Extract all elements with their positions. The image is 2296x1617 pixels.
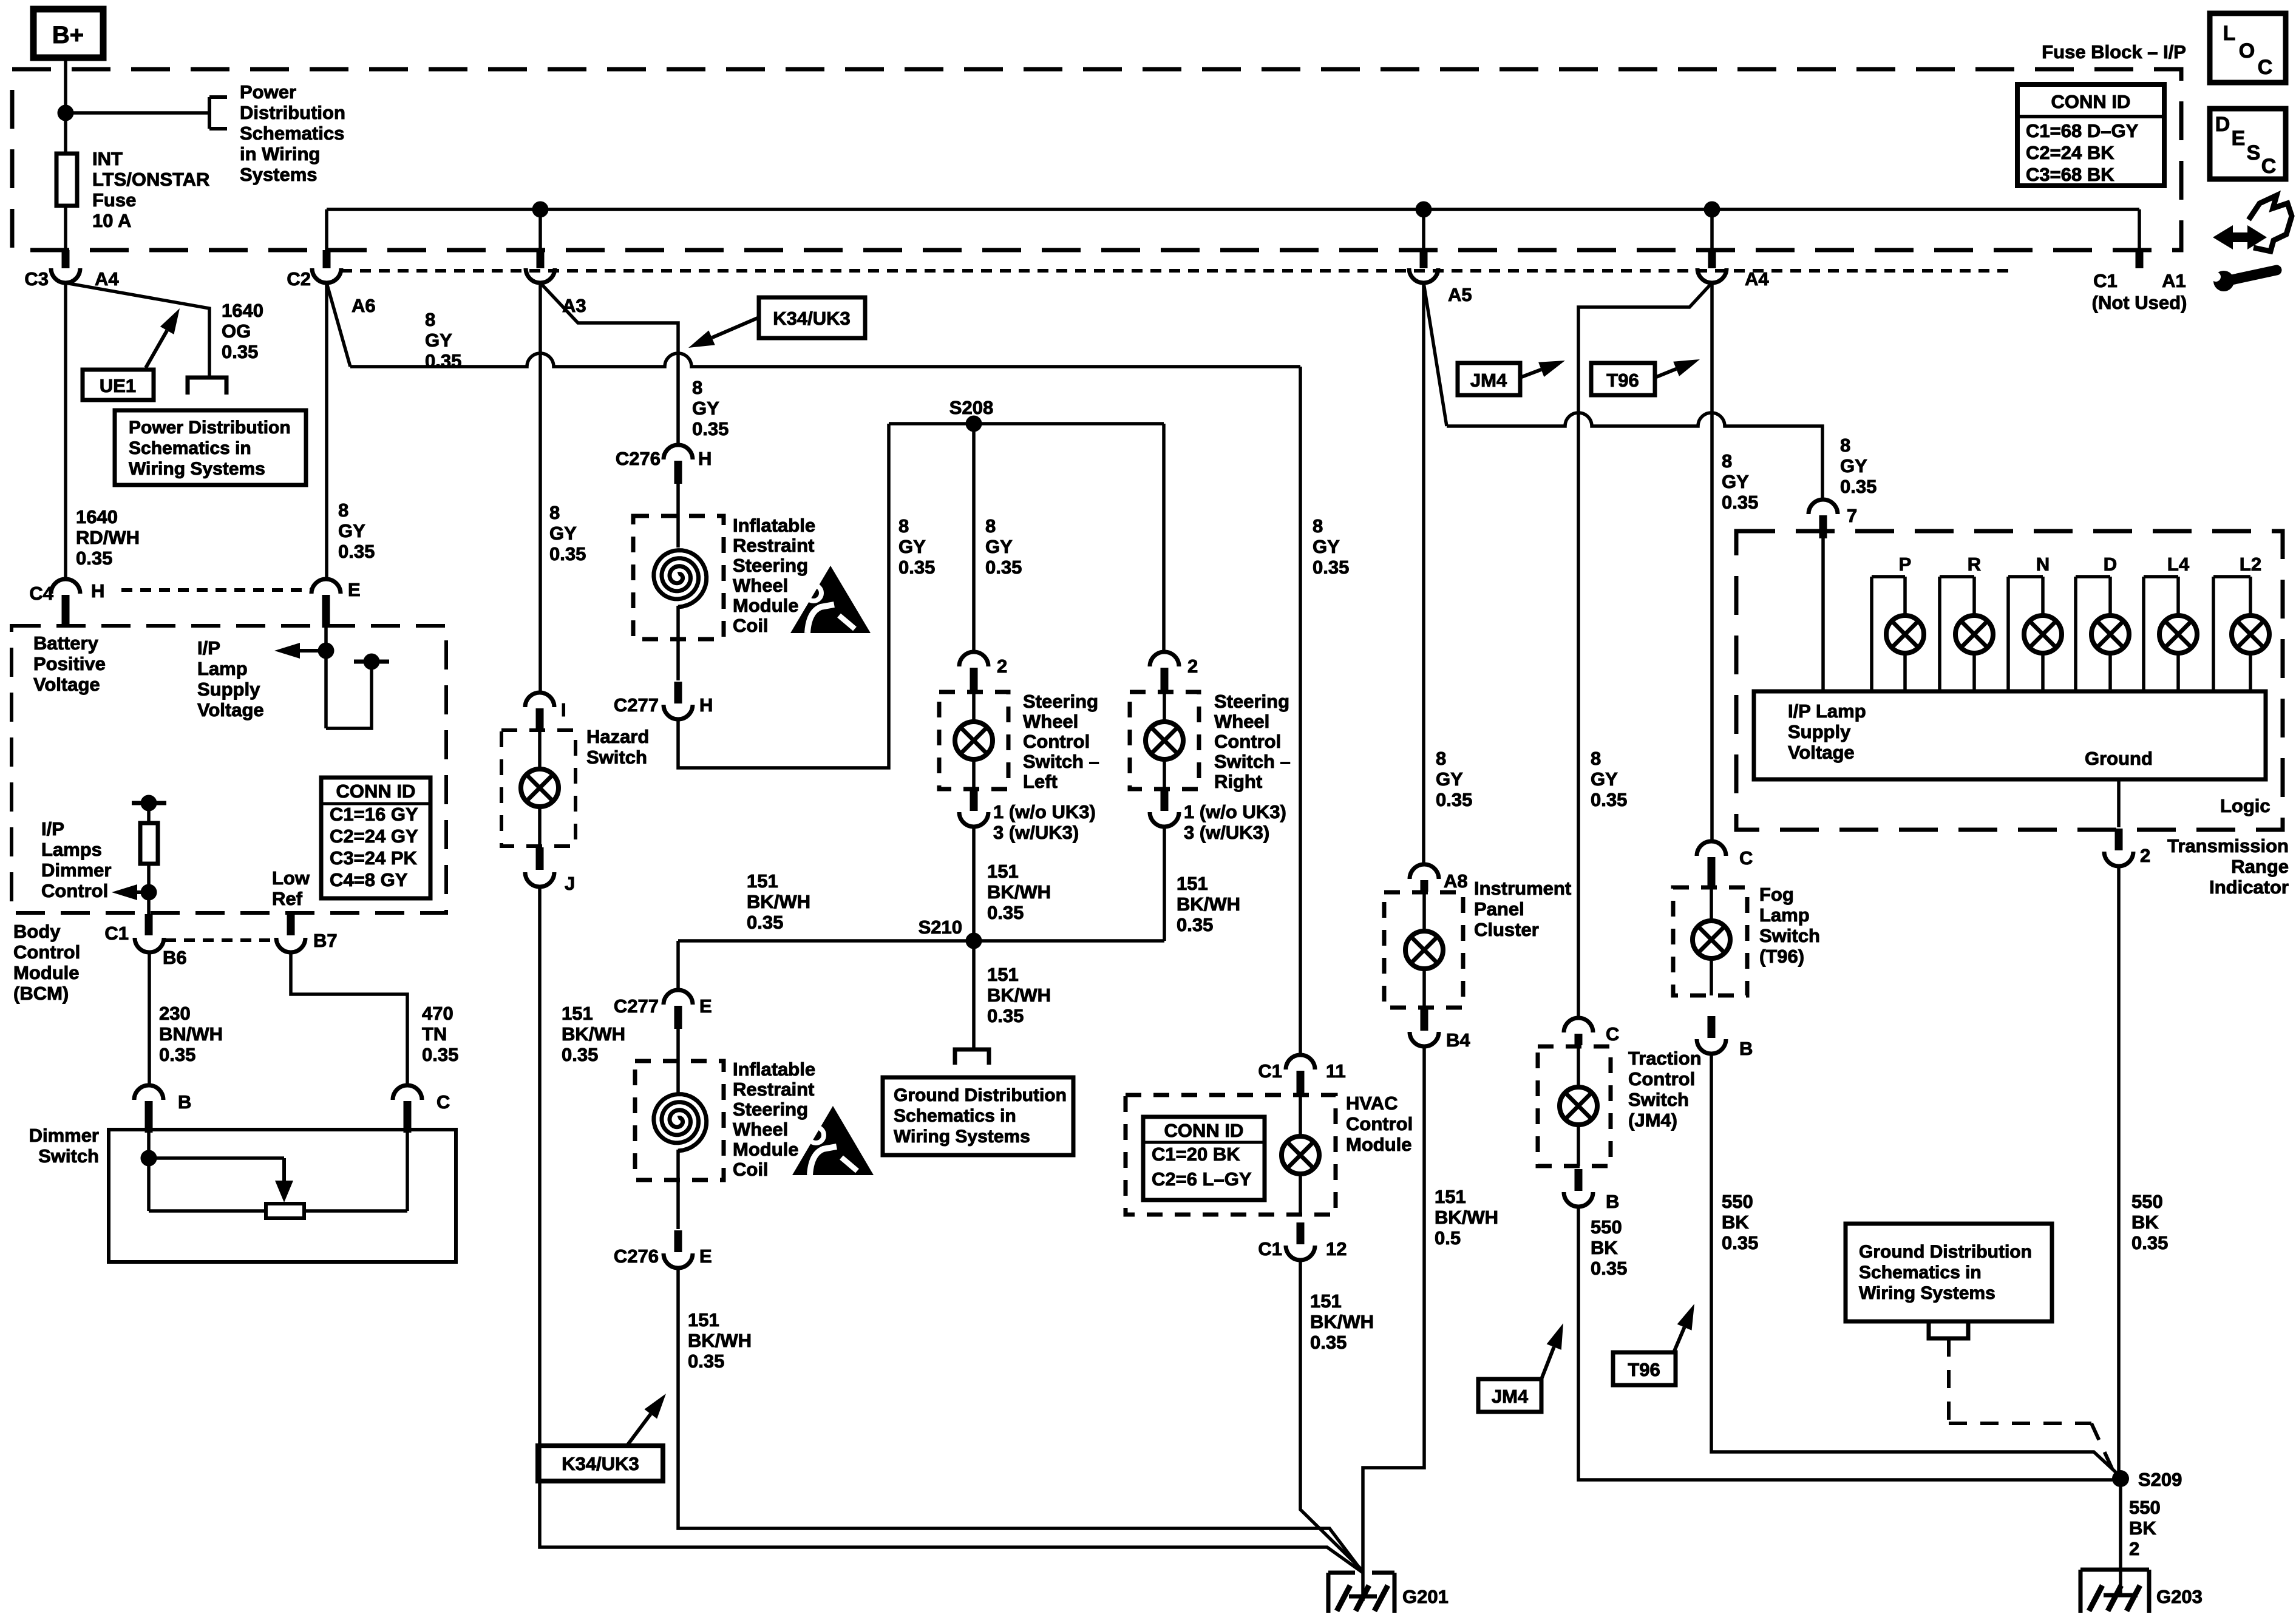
svg-text:Instrument: Instrument [1474, 878, 1571, 899]
svg-text:GY: GY [1591, 768, 1618, 790]
svg-text:Lamp: Lamp [197, 658, 248, 679]
svg-text:Control: Control [1214, 731, 1281, 752]
svg-text:GY: GY [425, 330, 452, 351]
svg-text:HVAC: HVAC [1346, 1093, 1398, 1114]
svg-text:L4: L4 [2167, 554, 2190, 575]
svg-text:7: 7 [1847, 505, 1857, 526]
svg-text:Traction: Traction [1628, 1048, 1702, 1069]
svg-text:Supply: Supply [197, 679, 260, 700]
svg-text:0.35: 0.35 [987, 902, 1024, 923]
svg-text:8: 8 [425, 309, 435, 330]
svg-text:Transmission: Transmission [2167, 835, 2289, 856]
svg-text:B4: B4 [1446, 1029, 1470, 1051]
svg-text:INT: INT [92, 148, 123, 169]
svg-text:P: P [1899, 554, 1912, 575]
svg-text:Cluster: Cluster [1474, 919, 1539, 940]
svg-text:0.35: 0.35 [422, 1044, 458, 1065]
svg-text:UE1: UE1 [100, 375, 136, 396]
svg-text:0.35: 0.35 [338, 541, 375, 562]
svg-text:151: 151 [747, 870, 778, 892]
svg-text:A6: A6 [352, 295, 376, 316]
svg-text:Coil: Coil [733, 1159, 769, 1180]
svg-text:B: B [1739, 1038, 1753, 1059]
svg-text:3 (w/UK3): 3 (w/UK3) [993, 822, 1079, 843]
svg-text:8: 8 [985, 515, 996, 537]
svg-text:I/P Lamp: I/P Lamp [1788, 700, 1866, 722]
svg-text:Restraint: Restraint [733, 1079, 814, 1100]
svg-text:151: 151 [1177, 873, 1208, 894]
svg-text:8: 8 [1722, 450, 1732, 472]
svg-text:BK/WH: BK/WH [1310, 1311, 1374, 1332]
svg-text:Control: Control [1346, 1113, 1413, 1134]
svg-text:CONN ID: CONN ID [336, 781, 416, 802]
svg-text:S210: S210 [919, 917, 962, 938]
svg-text:Restraint: Restraint [733, 535, 814, 556]
svg-text:A3: A3 [562, 295, 586, 316]
svg-text:E: E [699, 995, 712, 1017]
svg-text:0.35: 0.35 [76, 547, 112, 569]
svg-text:0.35: 0.35 [1177, 914, 1213, 935]
svg-text:Hazard: Hazard [586, 726, 649, 747]
svg-text:470: 470 [422, 1003, 453, 1024]
svg-text:(BCM): (BCM) [13, 983, 69, 1004]
svg-text:8: 8 [1591, 748, 1601, 769]
svg-text:N: N [2036, 554, 2050, 575]
svg-text:8: 8 [1313, 515, 1323, 537]
svg-text:K34/UK3: K34/UK3 [562, 1453, 639, 1474]
svg-text:H: H [698, 448, 712, 469]
svg-text:J: J [565, 873, 575, 894]
svg-text:Control: Control [1628, 1068, 1695, 1090]
svg-text:Range: Range [2231, 856, 2289, 877]
svg-text:T96: T96 [1628, 1359, 1660, 1380]
svg-text:O: O [2239, 39, 2255, 63]
svg-text:Fuse: Fuse [92, 189, 136, 211]
svg-text:2: 2 [2129, 1538, 2139, 1559]
svg-text:230: 230 [159, 1003, 191, 1024]
svg-text:G203: G203 [2156, 1586, 2203, 1607]
svg-text:0.35: 0.35 [1591, 789, 1627, 810]
svg-text:0.35: 0.35 [222, 341, 258, 362]
svg-text:JM4: JM4 [1470, 370, 1507, 391]
svg-text:0.35: 0.35 [985, 557, 1022, 578]
svg-text:151: 151 [562, 1003, 593, 1024]
svg-text:Coil: Coil [733, 615, 769, 636]
svg-text:Switch: Switch [1628, 1089, 1689, 1110]
svg-text:TN: TN [422, 1023, 447, 1045]
svg-text:BK/WH: BK/WH [1177, 893, 1240, 915]
svg-text:0.35: 0.35 [549, 543, 586, 564]
svg-text:Wheel: Wheel [1214, 711, 1269, 732]
svg-text:0.35: 0.35 [1722, 492, 1758, 513]
svg-text:0.35: 0.35 [159, 1044, 195, 1065]
svg-text:CONN ID: CONN ID [1164, 1120, 1244, 1141]
svg-text:C: C [1606, 1023, 1619, 1045]
svg-text:Dimmer: Dimmer [29, 1125, 99, 1146]
svg-text:10 A: 10 A [92, 210, 131, 231]
svg-text:151: 151 [987, 861, 1019, 882]
svg-text:B+: B+ [52, 22, 84, 49]
svg-text:0.35: 0.35 [987, 1005, 1024, 1026]
svg-text:Supply: Supply [1788, 721, 1851, 742]
svg-text:Voltage: Voltage [197, 699, 264, 720]
svg-text:A5: A5 [1448, 284, 1472, 305]
svg-text:Logic: Logic [2220, 795, 2271, 816]
svg-text:Positive: Positive [33, 653, 106, 674]
svg-text:Lamp: Lamp [1759, 904, 1810, 926]
svg-text:H: H [91, 580, 104, 602]
svg-text:JM4: JM4 [1492, 1386, 1529, 1407]
svg-text:E: E [2232, 127, 2246, 150]
svg-text:151: 151 [688, 1309, 719, 1331]
svg-text:Power Distribution: Power Distribution [129, 418, 291, 438]
svg-text:I/P: I/P [197, 637, 220, 659]
svg-text:0.35: 0.35 [425, 350, 461, 371]
svg-text:Fuse Block – I/P: Fuse Block – I/P [2042, 41, 2186, 63]
svg-text:Switch –: Switch – [1023, 751, 1099, 772]
svg-text:BK/WH: BK/WH [987, 985, 1051, 1006]
svg-text:BK/WH: BK/WH [987, 881, 1051, 903]
svg-text:BK/WH: BK/WH [747, 891, 810, 912]
svg-text:Wheel: Wheel [1023, 711, 1078, 732]
svg-text:Module: Module [733, 1139, 799, 1160]
svg-text:0.35: 0.35 [1591, 1258, 1627, 1279]
svg-text:Schematics in: Schematics in [894, 1106, 1016, 1126]
svg-text:0.35: 0.35 [1436, 789, 1472, 810]
svg-text:2: 2 [1187, 656, 1198, 677]
svg-text:0.35: 0.35 [2131, 1232, 2168, 1253]
svg-text:B6: B6 [163, 947, 187, 968]
svg-text:I: I [561, 699, 566, 720]
svg-text:GY: GY [338, 520, 365, 541]
svg-text:Schematics in: Schematics in [1859, 1263, 1982, 1283]
svg-text:Voltage: Voltage [33, 674, 100, 695]
svg-text:0.35: 0.35 [1310, 1332, 1347, 1353]
svg-text:OG: OG [222, 320, 251, 342]
svg-text:0.35: 0.35 [1313, 557, 1349, 578]
svg-text:RD/WH: RD/WH [76, 527, 140, 548]
svg-text:C1=20 BK: C1=20 BK [1152, 1144, 1240, 1165]
svg-text:8: 8 [898, 515, 909, 537]
svg-text:Wiring Systems: Wiring Systems [894, 1127, 1030, 1147]
svg-text:(JM4): (JM4) [1628, 1110, 1677, 1131]
svg-text:D: D [2104, 554, 2117, 575]
svg-text:0.35: 0.35 [562, 1044, 598, 1065]
svg-text:BK: BK [2129, 1517, 2156, 1539]
svg-text:I/P: I/P [41, 818, 64, 839]
svg-text:Systems: Systems [240, 164, 318, 185]
svg-text:A8: A8 [1444, 870, 1468, 892]
svg-text:Module: Module [733, 595, 799, 616]
svg-text:Steering: Steering [733, 555, 808, 576]
svg-text:S208: S208 [949, 397, 993, 418]
svg-text:C: C [436, 1091, 450, 1113]
svg-text:Left: Left [1023, 771, 1058, 792]
svg-text:Right: Right [1214, 771, 1262, 792]
svg-text:151: 151 [1310, 1290, 1342, 1312]
svg-text:GY: GY [692, 398, 719, 419]
svg-text:C2=6 L–GY: C2=6 L–GY [1152, 1168, 1252, 1190]
svg-text:Switch: Switch [1759, 925, 1820, 946]
svg-text:GY: GY [985, 536, 1013, 557]
svg-text:0.35: 0.35 [1722, 1232, 1758, 1253]
svg-text:C4: C4 [29, 583, 53, 604]
svg-text:C3: C3 [24, 268, 49, 290]
svg-text:Control: Control [13, 941, 80, 963]
svg-text:550: 550 [1591, 1216, 1622, 1238]
svg-text:0.35: 0.35 [688, 1351, 724, 1372]
svg-text:151: 151 [1435, 1186, 1466, 1207]
svg-text:GY: GY [898, 536, 926, 557]
svg-text:550: 550 [2129, 1497, 2161, 1518]
svg-text:BK: BK [1591, 1237, 1618, 1258]
svg-text:G201: G201 [1402, 1586, 1449, 1607]
svg-text:1 (w/o UK3): 1 (w/o UK3) [1184, 801, 1286, 822]
svg-text:L2: L2 [2240, 554, 2261, 575]
svg-text:CONN ID: CONN ID [2051, 91, 2131, 112]
svg-text:0.35: 0.35 [1840, 476, 1877, 497]
svg-text:BN/WH: BN/WH [159, 1023, 223, 1045]
svg-text:Schematics: Schematics [240, 123, 344, 144]
svg-text:R: R [1968, 554, 1981, 575]
svg-text:GY: GY [1313, 536, 1340, 557]
svg-text:1640: 1640 [222, 300, 263, 321]
svg-text:Module: Module [13, 962, 80, 983]
svg-text:C1: C1 [1258, 1238, 1282, 1259]
svg-text:K34/UK3: K34/UK3 [773, 308, 851, 329]
svg-text:C276: C276 [616, 448, 661, 469]
svg-text:Panel: Panel [1474, 898, 1524, 920]
svg-text:C277: C277 [614, 995, 659, 1017]
svg-text:Ground Distribution: Ground Distribution [1859, 1242, 2032, 1262]
svg-text:T96: T96 [1606, 370, 1639, 391]
svg-text:GY: GY [1722, 471, 1749, 492]
svg-text:Voltage: Voltage [1788, 742, 1855, 763]
svg-text:C: C [2261, 155, 2277, 178]
svg-text:Switch: Switch [38, 1145, 99, 1167]
svg-text:GY: GY [549, 523, 577, 544]
svg-text:Power: Power [240, 81, 296, 103]
svg-text:8: 8 [692, 377, 702, 398]
svg-text:Wiring Systems: Wiring Systems [1859, 1283, 1995, 1303]
svg-text:0.5: 0.5 [1435, 1227, 1461, 1249]
svg-text:12: 12 [1326, 1238, 1347, 1259]
svg-text:C3=24 PK: C3=24 PK [330, 847, 418, 869]
svg-text:Schematics in: Schematics in [129, 438, 251, 458]
svg-text:B: B [178, 1091, 191, 1113]
svg-text:0.35: 0.35 [747, 912, 783, 933]
svg-text:(Not Used): (Not Used) [2092, 292, 2187, 313]
svg-text:Inflatable: Inflatable [733, 515, 815, 536]
svg-text:Body: Body [13, 921, 61, 942]
svg-text:C2: C2 [287, 268, 311, 290]
svg-text:Indicator: Indicator [2209, 876, 2289, 898]
svg-text:Control: Control [1023, 731, 1090, 752]
svg-text:D: D [2215, 113, 2230, 136]
svg-text:B7: B7 [313, 930, 338, 951]
svg-text:BK/WH: BK/WH [1435, 1207, 1498, 1228]
svg-text:C1: C1 [2093, 270, 2118, 291]
svg-text:8: 8 [1436, 748, 1446, 769]
svg-text:C3=68 BK: C3=68 BK [2026, 164, 2114, 185]
svg-text:Battery: Battery [33, 632, 99, 654]
svg-text:2: 2 [2140, 845, 2150, 866]
svg-text:Wheel: Wheel [733, 575, 788, 596]
svg-text:2: 2 [997, 656, 1007, 677]
svg-text:E: E [348, 579, 361, 600]
svg-text:C276: C276 [614, 1246, 659, 1267]
svg-text:Ref: Ref [272, 888, 303, 909]
svg-text:C: C [1739, 847, 1753, 869]
svg-text:LTS/ONSTAR: LTS/ONSTAR [92, 169, 209, 190]
svg-text:8: 8 [549, 502, 560, 523]
svg-text:Module: Module [1346, 1134, 1412, 1155]
svg-text:GY: GY [1840, 455, 1867, 476]
svg-text:0.35: 0.35 [898, 557, 935, 578]
svg-text:1 (w/o UK3): 1 (w/o UK3) [993, 801, 1096, 822]
svg-text:E: E [699, 1246, 712, 1267]
svg-text:Wheel: Wheel [733, 1119, 788, 1140]
svg-text:BK/WH: BK/WH [688, 1330, 752, 1351]
svg-text:Fog: Fog [1759, 884, 1794, 905]
svg-text:Dimmer: Dimmer [41, 859, 111, 881]
svg-text:Switch: Switch [586, 747, 647, 768]
svg-text:C2=24 BK: C2=24 BK [2026, 142, 2114, 163]
svg-text:Control: Control [41, 880, 108, 901]
svg-text:11: 11 [1326, 1060, 1346, 1082]
svg-text:(T96): (T96) [1759, 946, 1804, 967]
svg-text:Low: Low [272, 867, 310, 889]
svg-text:A4: A4 [95, 268, 119, 290]
svg-text:Wiring Systems: Wiring Systems [129, 459, 265, 479]
svg-text:Ground: Ground [2085, 748, 2153, 769]
svg-text:8: 8 [1840, 435, 1850, 456]
svg-text:550: 550 [2131, 1191, 2163, 1212]
svg-text:C1: C1 [104, 923, 129, 944]
svg-text:S: S [2247, 141, 2261, 164]
svg-text:H: H [699, 694, 713, 716]
svg-text:BK/WH: BK/WH [562, 1023, 625, 1045]
svg-text:C1=16 GY: C1=16 GY [330, 804, 418, 825]
svg-text:151: 151 [987, 964, 1019, 985]
svg-text:C1=68 D–GY: C1=68 D–GY [2026, 120, 2139, 141]
svg-text:Inflatable: Inflatable [733, 1059, 815, 1080]
svg-text:GY: GY [1436, 768, 1463, 790]
svg-text:C277: C277 [614, 694, 659, 716]
svg-text:L: L [2223, 22, 2236, 45]
svg-text:S209: S209 [2138, 1469, 2182, 1490]
svg-text:Lamps: Lamps [41, 839, 102, 860]
svg-text:B: B [1606, 1191, 1619, 1212]
svg-text:3 (w/UK3): 3 (w/UK3) [1184, 822, 1269, 843]
svg-text:BK: BK [1722, 1212, 1749, 1233]
svg-text:550: 550 [1722, 1191, 1753, 1212]
svg-text:Distribution: Distribution [240, 102, 345, 123]
svg-text:Ground Distribution: Ground Distribution [894, 1085, 1067, 1105]
svg-text:BK: BK [2131, 1212, 2159, 1233]
svg-text:8: 8 [338, 500, 348, 521]
svg-text:Steering: Steering [733, 1099, 808, 1120]
svg-text:Switch –: Switch – [1214, 751, 1291, 772]
svg-text:A1: A1 [2162, 270, 2186, 291]
svg-text:1640: 1640 [76, 506, 118, 527]
svg-text:C: C [2258, 56, 2273, 79]
svg-text:A4: A4 [1745, 268, 1769, 290]
svg-text:C1: C1 [1258, 1060, 1282, 1082]
svg-text:0.35: 0.35 [692, 418, 729, 439]
svg-text:C2=24 GY: C2=24 GY [330, 825, 418, 847]
svg-text:in Wiring: in Wiring [240, 143, 320, 164]
svg-text:Steering: Steering [1214, 691, 1289, 712]
svg-text:Steering: Steering [1023, 691, 1098, 712]
svg-text:C4=8 GY: C4=8 GY [330, 869, 408, 890]
